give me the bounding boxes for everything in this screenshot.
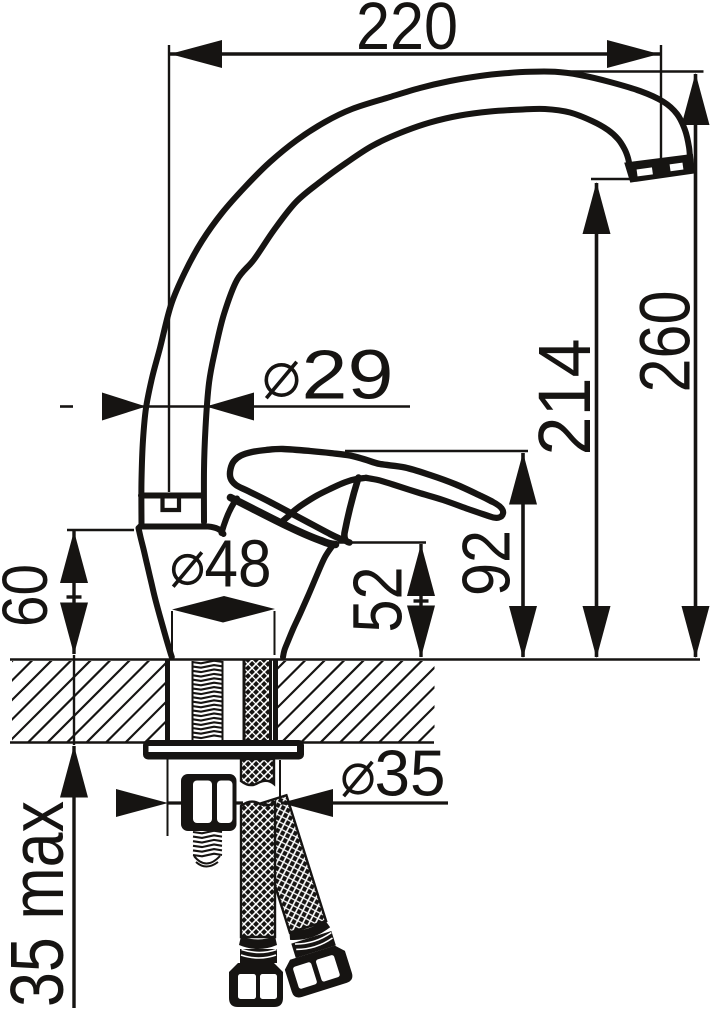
mounting washer plate xyxy=(143,740,304,760)
collar notch xyxy=(163,496,180,510)
svg-text:48: 48 xyxy=(205,527,272,602)
dimension line o29 xyxy=(60,405,73,408)
dim text o48 xyxy=(174,556,202,584)
lever underside xyxy=(366,478,490,517)
dimension line 60-35max through worktop xyxy=(73,655,75,745)
svg-text:220: 220 xyxy=(356,0,458,64)
extension line base right o48 xyxy=(274,611,276,655)
extension line 60 at body xyxy=(67,529,134,531)
dimension line o35 xyxy=(167,801,243,804)
rod end cap xyxy=(194,856,220,867)
hose2 ferrule xyxy=(287,919,331,944)
rod side edges xyxy=(192,661,194,740)
o48 arrows diamond xyxy=(172,596,275,623)
svg-text:260: 260 xyxy=(627,291,706,393)
mounting nut xyxy=(181,774,237,831)
body right edge xyxy=(283,545,333,657)
dimension line 35max xyxy=(72,746,75,1008)
spout outer curve xyxy=(141,71,690,525)
extension line o35 left xyxy=(167,745,169,836)
threaded rod xyxy=(192,661,223,857)
dimension line 214 xyxy=(595,183,599,657)
mounting hole right edge xyxy=(273,659,278,742)
dimension line 92 xyxy=(521,453,525,657)
arrowhead o35 left xyxy=(116,789,168,817)
lever rear steep edge xyxy=(344,478,358,543)
arrowhead 214 bottom xyxy=(583,606,611,658)
arrowhead 52 top xyxy=(407,544,435,596)
extension line 220 right xyxy=(660,45,662,160)
supply hose in mounting hole xyxy=(243,660,272,742)
handle dome arc xyxy=(282,478,366,522)
lever tip curl xyxy=(490,502,503,518)
hose 1 ferrule xyxy=(239,936,277,949)
spout inner curve xyxy=(204,109,630,522)
mounting hole left edge xyxy=(165,659,170,742)
arrowhead 60 top xyxy=(60,531,88,583)
handle dome left stub xyxy=(222,499,238,534)
arrowhead o29 right xyxy=(206,393,254,421)
dimension line o35 right part xyxy=(281,801,448,804)
svg-text:52: 52 xyxy=(339,567,417,633)
aerator tip band xyxy=(626,155,695,182)
extension line 220 left xyxy=(168,45,170,492)
hose 1 end nut xyxy=(229,963,283,1007)
dim text o35 xyxy=(344,765,372,793)
arrowhead 220 left xyxy=(170,40,222,68)
svg-text:35 max: 35 max xyxy=(0,801,79,1007)
arrowhead 214 top xyxy=(583,182,611,234)
dimension line 60 xyxy=(72,531,75,654)
dim text o29 xyxy=(266,365,296,395)
extension line base left o48 xyxy=(171,611,173,655)
arrowhead 260 bottom xyxy=(682,606,710,658)
aerator slot left xyxy=(637,167,653,176)
arrowhead 35max xyxy=(60,746,88,798)
hose 2 diagonal xyxy=(235,793,354,1000)
svg-text:214: 214 xyxy=(523,339,606,456)
extension line 52 at handle base xyxy=(334,541,426,543)
svg-text:29: 29 xyxy=(302,336,394,414)
svg-text:92: 92 xyxy=(449,530,525,596)
arrowhead 60 bottom xyxy=(60,603,88,655)
arrowhead o35 right xyxy=(281,789,333,817)
dimension line 220 xyxy=(169,52,660,55)
arrowhead 220 right xyxy=(607,40,659,68)
worktop bottom line xyxy=(10,741,434,744)
aerator slot right xyxy=(670,163,684,172)
arrowhead 260 top xyxy=(682,73,710,125)
arrowhead 92 top xyxy=(509,453,537,505)
worktop top surface line xyxy=(10,658,700,661)
extension line 92 at lever top xyxy=(345,450,528,452)
dimension line 52 xyxy=(419,544,422,657)
collar bottom line and shoulder xyxy=(140,527,224,535)
hose 1 lower run xyxy=(241,802,275,937)
arrowhead 92 bottom xyxy=(509,606,537,658)
svg-text:35: 35 xyxy=(375,737,446,810)
extension line 214 top at aerator xyxy=(591,178,637,180)
arrowhead 52 bottom xyxy=(407,606,435,658)
lever outline with cap xyxy=(230,449,492,540)
arrowhead o29 left xyxy=(102,393,146,421)
extension line o35 right xyxy=(279,760,281,836)
collar top line xyxy=(141,493,202,499)
hose2 end nut xyxy=(282,943,354,999)
dimension line 260 xyxy=(694,74,698,657)
svg-text:60: 60 xyxy=(0,564,61,627)
hose below washer with break xyxy=(241,759,274,785)
body left edge xyxy=(139,528,172,657)
handle chin line lower xyxy=(231,498,336,545)
extension line 260 top xyxy=(545,70,704,72)
